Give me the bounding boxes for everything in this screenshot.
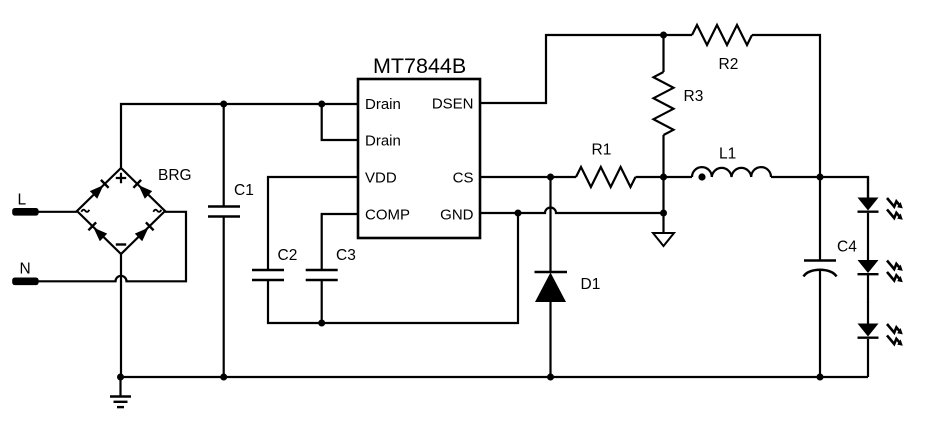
- svg-text:L1: L1: [719, 146, 736, 163]
- svg-text:DSEN: DSEN: [432, 96, 474, 113]
- svg-text:BRG: BRG: [158, 167, 192, 184]
- svg-text:CS: CS: [453, 170, 474, 187]
- svg-text:R3: R3: [684, 88, 704, 105]
- svg-text:R2: R2: [719, 56, 739, 73]
- svg-text:COMP: COMP: [365, 207, 410, 224]
- svg-text:N: N: [20, 261, 31, 278]
- svg-text:C4: C4: [837, 239, 857, 256]
- svg-text:C2: C2: [278, 247, 298, 264]
- svg-text:MT7844B: MT7844B: [373, 54, 466, 78]
- svg-text:C1: C1: [234, 182, 254, 199]
- svg-text:VDD: VDD: [365, 170, 397, 187]
- svg-text:L: L: [18, 192, 27, 209]
- svg-text:R1: R1: [592, 142, 612, 159]
- svg-text:D1: D1: [581, 276, 601, 293]
- svg-text:GND: GND: [440, 207, 474, 224]
- svg-text:Drain: Drain: [365, 133, 401, 150]
- svg-text:C3: C3: [336, 247, 356, 264]
- svg-text:Drain: Drain: [365, 96, 401, 113]
